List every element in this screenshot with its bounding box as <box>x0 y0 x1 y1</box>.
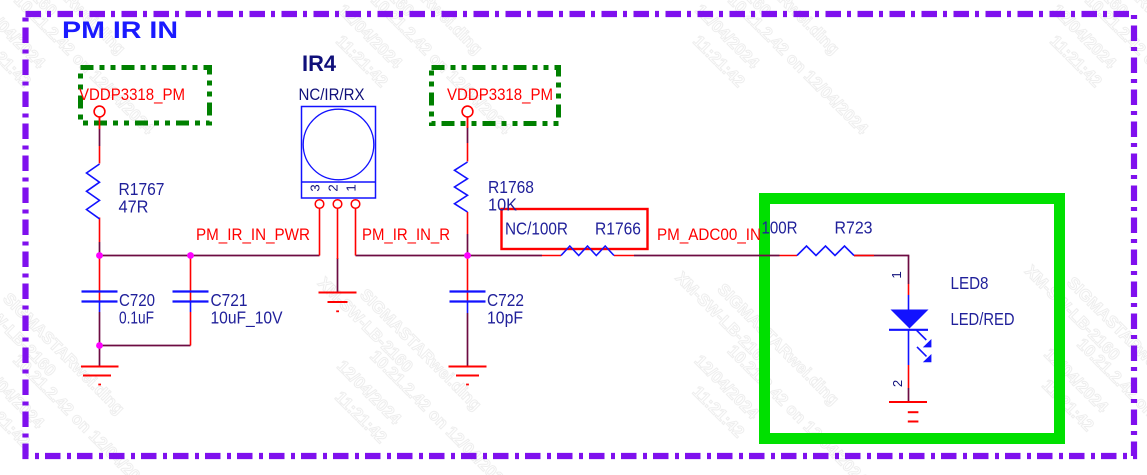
pin lead R723 left <box>780 255 798 257</box>
wire main horizontal PWR <box>100 255 320 257</box>
pin lead C720 top <box>99 256 101 302</box>
resistor R723 <box>797 246 854 256</box>
svg-text:47R: 47R <box>119 197 149 217</box>
pin lead R1767 top <box>99 146 101 164</box>
pin lead R1768 top <box>467 143 469 162</box>
svg-text:1: 1 <box>889 271 904 278</box>
svg-text:10K: 10K <box>488 195 517 215</box>
svg-text:LED/RED: LED/RED <box>951 309 1015 329</box>
IR4 body <box>302 107 376 199</box>
svg-text:10uF_10V: 10uF_10V <box>211 308 283 329</box>
capacitor C722 <box>450 292 486 314</box>
pin lead R1767 bottom <box>99 218 101 243</box>
resistor R1767 <box>87 164 100 219</box>
svg-text:VDDP3318_PM: VDDP3318_PM <box>447 86 553 104</box>
pin lead R723 right <box>854 255 874 257</box>
red pin leads <box>100 117 909 389</box>
svg-text:100R: 100R <box>762 218 798 238</box>
pin lead R1766 right <box>614 255 634 257</box>
pin lead VDDP2 <box>467 117 469 128</box>
green box LED8 (solid) <box>765 199 1060 439</box>
pin lead R1768 bottom <box>467 212 469 234</box>
wire PM_IR_IN_R net <box>356 255 543 257</box>
LED D triangle <box>891 310 929 329</box>
LED top lead <box>908 295 910 310</box>
ground under IR4 pin2 <box>319 293 357 312</box>
LED arrow 2 <box>917 347 927 357</box>
svg-text:NC/100R: NC/100R <box>505 219 568 239</box>
ground under LED8 <box>889 402 927 422</box>
LED bottom lead <box>908 330 910 365</box>
wire LED to ground <box>908 388 910 402</box>
power symbol VDDP3318_PM #2 <box>432 68 559 124</box>
svg-text:2: 2 <box>326 184 341 191</box>
LED cathode bar <box>889 329 928 331</box>
pin lead C721 bottom <box>190 312 192 346</box>
pin lead VDDP1 <box>99 117 101 130</box>
svg-text:2: 2 <box>890 380 905 387</box>
pin lead C721 top <box>190 256 192 302</box>
ground under C722 <box>449 367 487 385</box>
ground under C720 <box>81 367 119 385</box>
junction node PM_IR_IN_PWR at C720 <box>96 252 103 259</box>
svg-text:PM_ADC00_IN: PM_ADC00_IN <box>657 226 761 244</box>
svg-text:NC/IR/RX: NC/IR/RX <box>299 85 365 104</box>
resistor R1766 <box>561 246 614 256</box>
wire C720 col verticals <box>99 129 101 146</box>
pin leads IR4 <box>319 209 321 256</box>
pin lead R1766 left <box>542 255 561 257</box>
wire PM_ADC00_IN net <box>634 255 780 257</box>
svg-text:LED8: LED8 <box>951 273 989 293</box>
IR4 pin circles <box>315 200 360 209</box>
junction node PM_IR_IN_PWR at C721 <box>187 252 194 259</box>
svg-text:IR4: IR4 <box>302 51 337 76</box>
svg-text:0.1uF: 0.1uF <box>119 308 154 328</box>
svg-text:PM_IR_IN_R: PM_IR_IN_R <box>362 226 450 244</box>
svg-text:10pF: 10pF <box>487 308 523 328</box>
svg-text:3: 3 <box>308 184 323 191</box>
wire IR4 pin2 to ground <box>337 258 339 293</box>
svg-text:R1766: R1766 <box>595 219 641 239</box>
svg-text:1: 1 <box>344 184 359 191</box>
capacitor C721 <box>173 292 209 313</box>
pin lead C722 top <box>467 256 469 302</box>
wire PM_IR_IN_PWR net <box>100 127 910 402</box>
red box around NC/100R R1766 <box>502 209 648 249</box>
wire bottom between caps <box>100 345 191 347</box>
pin lead LED bottom <box>908 365 910 388</box>
power symbol VDDP3318_PM #1 <box>81 68 210 124</box>
svg-text:PM IR IN: PM IR IN <box>62 17 178 44</box>
svg-text:R723: R723 <box>835 218 873 238</box>
LED arrow 1 <box>917 330 927 340</box>
svg-text:PM_IR_IN_PWR: PM_IR_IN_PWR <box>196 226 310 244</box>
resistor R1768 <box>455 162 468 212</box>
junction node PM_IR_IN_R at C722/R1768 <box>464 252 471 259</box>
junction node C720/C721 bottom <box>96 342 103 349</box>
capacitor C720 <box>82 292 118 313</box>
IR4 pin numbers <box>308 184 359 191</box>
svg-text:VDDP3318_PM: VDDP3318_PM <box>79 86 185 104</box>
pin lead LED top <box>908 284 910 295</box>
